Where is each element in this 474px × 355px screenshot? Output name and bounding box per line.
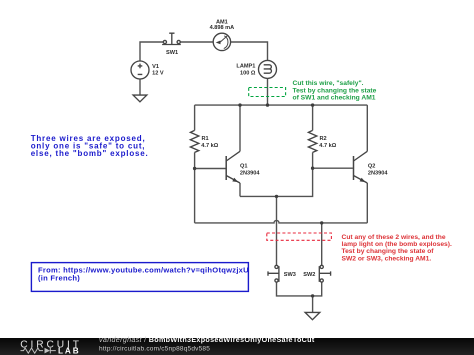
svg-text:4.898 mA: 4.898 mA <box>210 25 235 31</box>
wire top rail <box>195 104 368 106</box>
green dashed region <box>249 88 286 97</box>
wire V1 bottom to ground <box>139 79 141 95</box>
wire R1 bottom lead <box>194 152 196 168</box>
resistor R1 <box>190 130 198 152</box>
wire R2 top lead <box>312 105 314 130</box>
logo resistor-diode squiggle <box>21 348 56 354</box>
switch SW1 (pushbutton) <box>163 40 166 43</box>
svg-text:4.7 kΩ: 4.7 kΩ <box>201 143 218 149</box>
svg-text:vanderghast / BombWith3Exposed: vanderghast / BombWith3ExposedWiresOnlyO… <box>99 335 315 344</box>
svg-text:R2: R2 <box>320 136 327 142</box>
green annotation text <box>293 80 377 101</box>
wire Q1 emitter drop <box>239 183 241 196</box>
node R2 / rail <box>311 103 314 106</box>
wire bottom rail with hop over SW3 wire <box>195 220 368 223</box>
switch SW2 (pushbutton, vertical) <box>320 265 323 268</box>
blue source box <box>31 263 248 292</box>
red annotation text <box>342 234 452 262</box>
svg-text:12 V: 12 V <box>152 71 164 77</box>
svg-text:SW2: SW2 <box>303 272 315 278</box>
svg-text:100 Ω: 100 Ω <box>240 70 256 76</box>
wire SW3 drop <box>276 196 278 265</box>
voltage source V1 <box>131 61 149 79</box>
svg-text:Test by changing the state: Test by changing the state <box>293 87 377 94</box>
wire AM1 to LAMP1 <box>231 42 268 60</box>
wire ground stem bottom <box>312 296 314 312</box>
svg-text:R1: R1 <box>202 136 209 142</box>
lamp LAMP1 <box>259 60 277 78</box>
svg-text:2N3904: 2N3904 <box>240 170 260 176</box>
svg-text:Test by changing the state of: Test by changing the state of <box>342 248 435 255</box>
svg-text:else, the "bomb" explose.: else, the "bomb" explose. <box>31 149 149 158</box>
wire R2 bottom lead <box>312 152 314 168</box>
transistor Q1 <box>225 156 227 180</box>
red dashed region <box>267 233 332 240</box>
wire Q2 base <box>313 167 353 169</box>
svg-text:http://circuitlab.com/c5np88q5: http://circuitlab.com/c5np88q5dv585 <box>99 346 210 353</box>
node Q1 base <box>193 167 196 170</box>
svg-text:Q2: Q2 <box>368 164 375 170</box>
wire Q1 base <box>195 168 226 170</box>
ammeter AM1 <box>213 33 230 50</box>
svg-text:SW2 or SW3, checking AM1.: SW2 or SW3, checking AM1. <box>342 255 432 262</box>
node bottom rail / SW2 <box>320 221 323 224</box>
svg-text:V1: V1 <box>152 64 159 70</box>
svg-text:LAB: LAB <box>58 346 81 355</box>
switch SW3 (pushbutton, vertical) <box>275 265 278 268</box>
svg-text:(in French): (in French) <box>38 274 80 283</box>
wire switches bottom U <box>277 282 322 296</box>
svg-text:of SW1 and checking AM1: of SW1 and checking AM1 <box>293 94 376 101</box>
wire emitter rail to R2 node <box>240 168 313 196</box>
svg-text:2N3904: 2N3904 <box>368 170 388 176</box>
node dots <box>193 103 323 297</box>
wire SW2 drop <box>321 223 323 265</box>
ground (under V1) <box>133 95 147 102</box>
resistor R2 <box>308 130 316 152</box>
wire Q2 collector to rail <box>366 105 368 151</box>
svg-text:lamp light on (the bomb explos: lamp light on (the bomb exploses). <box>342 241 452 248</box>
node Q2 base <box>311 167 314 170</box>
wire Q2 emitter drop <box>366 183 368 223</box>
wire LAMP1 bottom to top rail <box>267 78 269 105</box>
node ground tap <box>311 294 314 297</box>
svg-text:Cut this wire, "safely".: Cut this wire, "safely". <box>293 80 364 87</box>
wire left drop to bottom rail <box>194 169 196 223</box>
svg-text:4.7 kΩ: 4.7 kΩ <box>319 143 336 149</box>
ground (bottom) <box>305 312 320 319</box>
wire V1 top to SW1 <box>140 42 163 61</box>
blue annotation text <box>31 134 149 158</box>
node lamp / rail <box>266 103 269 106</box>
wire SW1 to AM1 <box>180 41 213 43</box>
svg-text:Cut any of these 2 wires, and: Cut any of these 2 wires, and the <box>342 234 446 241</box>
node emitter rail / SW3 <box>275 195 278 198</box>
svg-text:Q1: Q1 <box>240 164 247 170</box>
transistor Q2 <box>353 156 355 180</box>
node Q1 collector / rail <box>238 103 241 106</box>
svg-text:SW3: SW3 <box>284 272 296 278</box>
svg-text:LAMP1: LAMP1 <box>236 64 255 70</box>
wire R1 top lead <box>194 105 196 130</box>
wire Q1 collector to rail <box>239 105 241 151</box>
svg-text:SW1: SW1 <box>166 50 178 56</box>
